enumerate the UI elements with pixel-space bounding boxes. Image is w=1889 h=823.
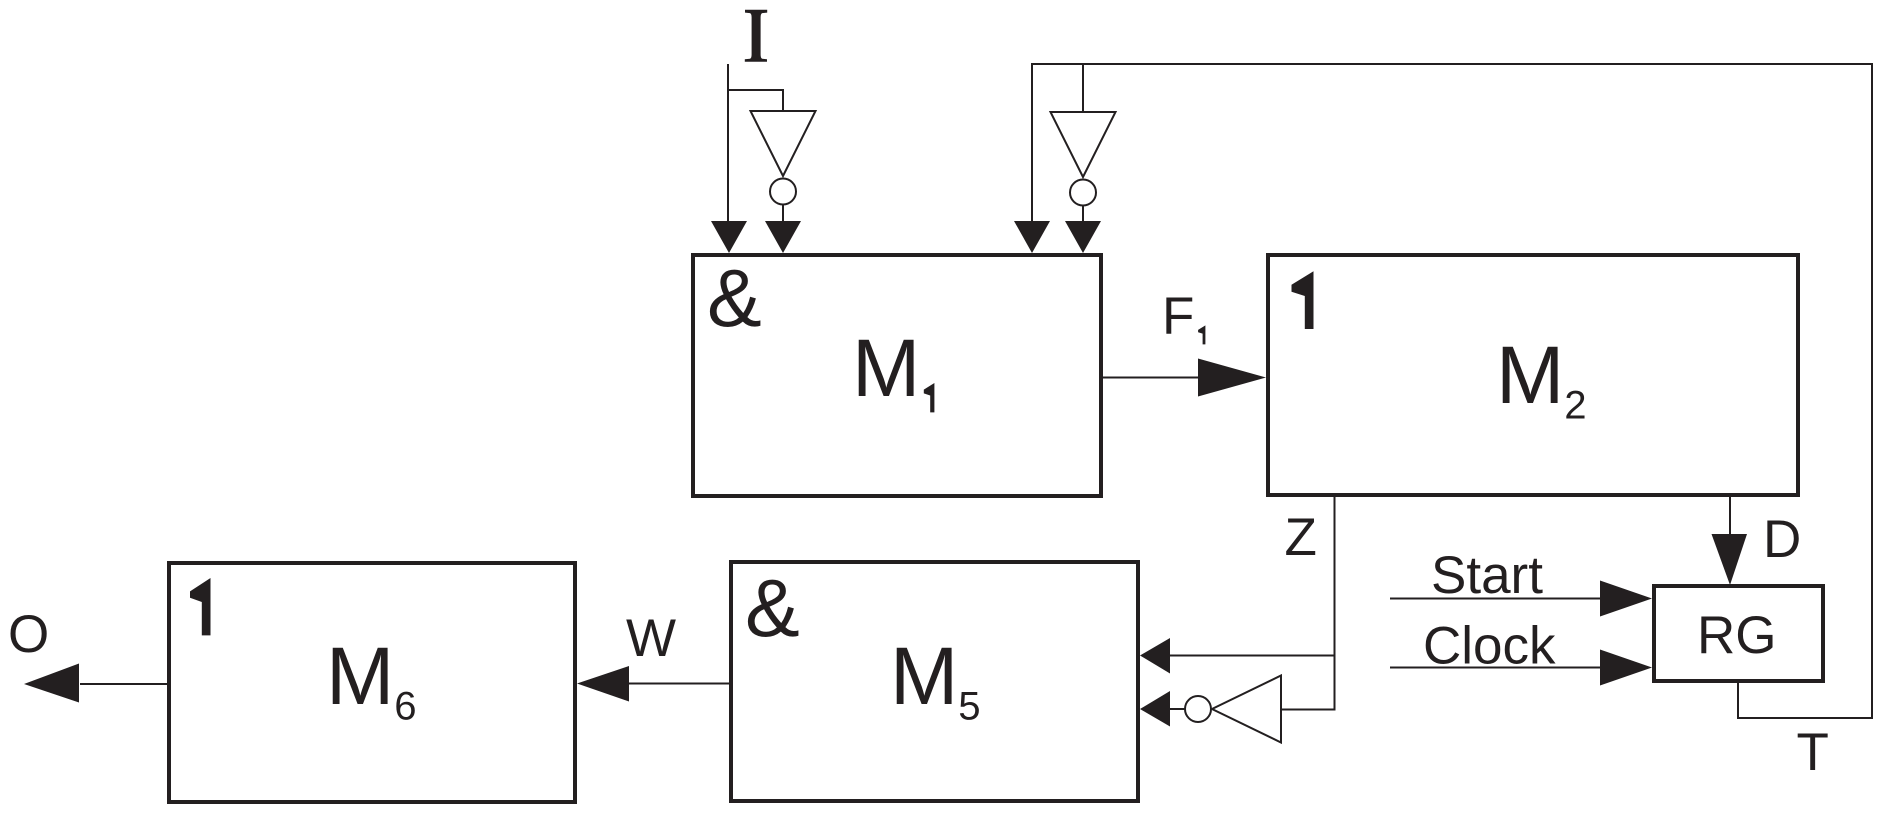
inverter U1 triangle: [751, 111, 816, 176]
svg-text:&: &: [707, 253, 762, 344]
svg-text:M: M: [852, 323, 920, 414]
wire I branch horizontal: [727, 89, 784, 91]
svg-text:D: D: [1763, 510, 1801, 569]
arrowhead D into RG: [1712, 534, 1748, 585]
wire Start: [1390, 598, 1600, 600]
svg-text:RG: RG: [1697, 606, 1777, 665]
block M6: [169, 563, 575, 802]
svg-text:Clock: Clock: [1423, 617, 1556, 676]
arrowhead into M1 pin 4: [1065, 221, 1101, 253]
arrowhead inverted Z into M5 lower: [1140, 691, 1170, 727]
wire I branch vertical to inverter: [782, 89, 784, 112]
wire D from M2 to RG: [1729, 495, 1731, 536]
label 1 of M2: [1292, 271, 1314, 329]
inverter U1 bubble: [770, 179, 796, 205]
wire inverter U2 output stem: [1082, 206, 1084, 224]
arrowhead Start into RG: [1600, 581, 1652, 617]
inverter U2 triangle: [1051, 112, 1116, 177]
wire feedback drop to M1 pin 3: [1031, 63, 1033, 223]
svg-text:W: W: [626, 609, 676, 668]
wire Z to inverter U3 input: [1281, 709, 1336, 711]
wire Z branch to M5 upper input: [1170, 655, 1336, 657]
wire O output from M6: [80, 683, 169, 685]
label 1 of M6: [190, 578, 211, 635]
wire Clock: [1390, 667, 1600, 669]
arrowhead F1 into M2: [1198, 359, 1266, 397]
svg-text:M: M: [1496, 330, 1564, 421]
arrowhead W into M6: [577, 666, 629, 702]
wire inverter U1 output stem: [782, 205, 784, 224]
svg-text:&: &: [745, 563, 800, 654]
arrowhead into M1 pin 2: [765, 221, 801, 253]
inverter U2 bubble: [1070, 180, 1096, 206]
wire inverter U3 output stem: [1170, 708, 1185, 710]
block M2: [1268, 255, 1798, 495]
arrowhead Z into M5 upper: [1140, 638, 1170, 674]
svg-text:O: O: [8, 605, 49, 664]
node I (input label): [745, 10, 767, 62]
svg-text:T: T: [1797, 723, 1829, 782]
svg-text:Z: Z: [1285, 508, 1317, 567]
block M5: [731, 562, 1138, 801]
block M1: [693, 255, 1101, 496]
wire I vertical stem: [727, 64, 729, 223]
inverter U3 bubble: [1185, 696, 1211, 722]
arrowhead Clock into RG: [1600, 650, 1652, 686]
svg-text:Start: Start: [1431, 546, 1543, 605]
svg-text:M: M: [326, 631, 394, 722]
arrowhead into M1 pin 3: [1014, 221, 1050, 253]
wire T feedback top/right: [1032, 64, 1872, 718]
svg-text:M: M: [890, 631, 958, 722]
inverter U3 triangle: [1212, 676, 1281, 743]
wire F1 from M1 to M2: [1101, 377, 1200, 379]
arrowhead O output: [24, 664, 79, 703]
arrowhead into M1 pin 1: [711, 221, 747, 253]
svg-text:F: F: [1162, 287, 1194, 346]
wire feedback drop to inverter U2: [1082, 63, 1084, 112]
block RG register: [1654, 586, 1823, 681]
wire W from M5 to M6: [627, 683, 731, 685]
wire Z vertical from M2: [1334, 495, 1336, 711]
